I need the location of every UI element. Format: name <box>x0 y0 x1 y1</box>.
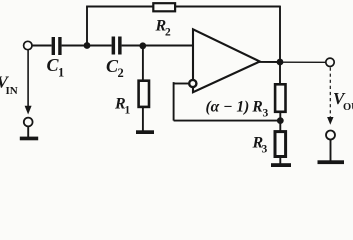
wire: feedback horizontal to R3 divider node <box>174 120 281 122</box>
ground (input side) <box>20 137 38 141</box>
ground (below R3) <box>271 163 291 167</box>
ground (below R1) <box>136 130 154 134</box>
wire: R1 to ground <box>142 107 144 131</box>
wire: riser node A up to top feedback rail <box>86 7 88 46</box>
ground (output side) <box>318 160 345 164</box>
wire: input branch down (voltage arrow line) <box>27 50 29 107</box>
wire: right drop from top rail down to output node <box>279 6 281 62</box>
wire: output node to output terminal <box>281 61 326 63</box>
arrow head (VO) <box>327 117 333 125</box>
node A junction dot <box>84 42 91 49</box>
input terminal (left) <box>24 41 32 49</box>
svg-text:2: 2 <box>118 66 124 80</box>
svg-text:1: 1 <box>125 105 131 117</box>
svg-text:2: 2 <box>165 27 171 39</box>
wire: top rail right segment from R2 to right drop <box>175 6 280 8</box>
output lower terminal <box>326 131 335 140</box>
node C junction dot (output node) <box>277 59 284 66</box>
arrow head (VIN) <box>25 106 32 115</box>
capacitor C2 <box>112 37 122 55</box>
wire: stub to output ground <box>330 140 332 162</box>
wire: op-amp output to output node <box>259 61 282 63</box>
resistor (alpha-1)R3 <box>275 84 285 112</box>
wire: C2 to op-amp noninverting input <box>122 45 193 47</box>
wire: dashed output measurement line <box>329 68 331 118</box>
svg-text:1: 1 <box>58 66 64 80</box>
input lower terminal <box>24 118 33 127</box>
output terminal <box>326 58 334 66</box>
wire: input terminal to C1 <box>32 45 51 47</box>
wire: R3 to ground <box>279 157 281 165</box>
node D junction dot (divider node) <box>277 117 284 124</box>
wire: output node down to (a-1)R3 <box>279 62 281 84</box>
resistor R2 <box>153 3 175 11</box>
svg-text:3: 3 <box>263 108 269 120</box>
wire: feedback vertical drop <box>173 82 175 121</box>
wire: node B down to R1 <box>142 46 144 81</box>
resistor R1 <box>139 81 149 107</box>
wire: stub to input ground <box>27 126 29 137</box>
wire: divider node down to R3 <box>279 121 281 132</box>
op-amp U1 <box>193 29 260 92</box>
capacitor C1 <box>52 37 62 55</box>
svg-text:(α − 1) R: (α − 1) R <box>206 99 263 116</box>
wire: (alpha-1)R3 to divider node <box>279 112 281 121</box>
svg-text:3: 3 <box>262 144 268 156</box>
op-amp inverting input bubble <box>189 80 196 87</box>
wire: top rail left segment to R2 <box>86 6 153 8</box>
wire: C1 to C2 <box>62 45 112 47</box>
svg-text:OU: OU <box>343 102 353 113</box>
node B junction dot (R1 tap) <box>139 42 146 49</box>
resistor R3 <box>275 132 286 157</box>
wire: feedback from bubble going left <box>174 83 189 85</box>
svg-text:IN: IN <box>6 85 18 97</box>
